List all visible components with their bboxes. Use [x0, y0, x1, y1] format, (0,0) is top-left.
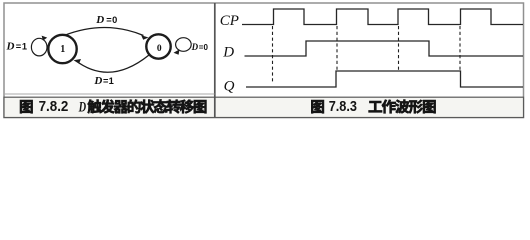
svg-text:D: D: [93, 75, 102, 87]
svg-text:D: D: [6, 40, 15, 52]
svg-text:D: D: [191, 42, 199, 52]
svg-text:0: 0: [157, 44, 162, 54]
svg-text:1: 1: [22, 41, 27, 51]
svg-text:D: D: [78, 99, 86, 115]
svg-text:D: D: [95, 14, 104, 26]
svg-text:0: 0: [112, 15, 117, 25]
svg-text:7.8.3: 7.8.3: [329, 98, 357, 115]
svg-text:=: =: [16, 41, 22, 51]
svg-text:1: 1: [60, 44, 65, 55]
svg-text:CP: CP: [220, 13, 239, 29]
svg-text:1: 1: [109, 76, 114, 86]
svg-text:7.8.2: 7.8.2: [39, 98, 69, 115]
svg-text:D: D: [222, 44, 234, 60]
svg-text:0: 0: [204, 43, 209, 52]
svg-text:Q: Q: [224, 78, 235, 94]
